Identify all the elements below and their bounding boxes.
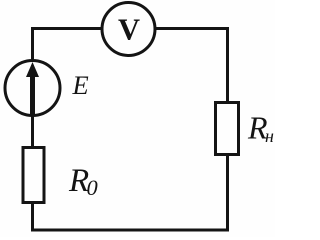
source E arrow shaft (30, 76, 35, 116)
voltmeter circle (102, 3, 155, 56)
wire: right vertical (top corner down to Rn) (226, 27, 229, 103)
svg-text:н: н (265, 126, 274, 146)
svg-text:0: 0 (87, 175, 98, 200)
wire: left vertical (source circle to R0) (31, 115, 34, 148)
svg-text:E: E (72, 70, 89, 100)
source E circle (5, 61, 60, 116)
wire: top-left horizontal (corner to voltmeter) (31, 27, 101, 30)
wire: bottom horizontal (31, 229, 229, 232)
resistor Rn (load) (216, 103, 239, 155)
wire: right vertical (Rn down to bottom corner) (226, 154, 229, 232)
wire: left vertical (R0 down to bottom corner) (31, 202, 34, 232)
wire: top-right horizontal (voltmeter to corner) (156, 27, 229, 30)
svg-text:V: V (118, 13, 140, 47)
source E arrowhead (26, 62, 39, 77)
wire: left vertical (corner down to source circle) (31, 27, 34, 61)
resistor R0 (23, 148, 44, 203)
